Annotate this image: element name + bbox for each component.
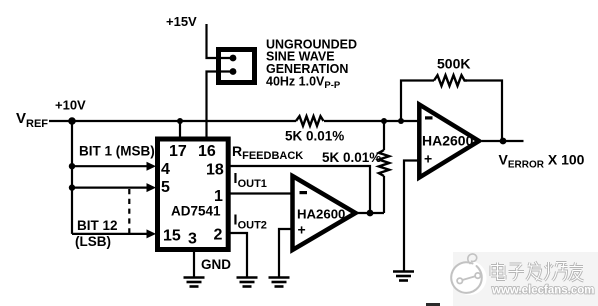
svg-text:500K: 500K — [437, 56, 470, 72]
svg-text:BIT 12: BIT 12 — [77, 218, 118, 233]
svg-text:BIT 1 (MSB): BIT 1 (MSB) — [79, 144, 155, 159]
svg-text:3: 3 — [188, 231, 197, 248]
svg-text:18: 18 — [206, 162, 224, 179]
svg-text:5: 5 — [161, 179, 170, 196]
svg-text:GND: GND — [201, 257, 231, 272]
svg-text:4: 4 — [161, 161, 170, 178]
svg-text:16: 16 — [198, 143, 216, 160]
svg-text:HA2600: HA2600 — [422, 133, 474, 149]
svg-text:5K 0.01%: 5K 0.01% — [322, 150, 381, 165]
svg-text:HA2600: HA2600 — [297, 207, 345, 222]
svg-text:www.elecfans.com: www.elecfans.com — [491, 285, 594, 297]
svg-text:17: 17 — [169, 143, 187, 160]
svg-text:AD7541: AD7541 — [171, 203, 221, 218]
svg-text:+: + — [424, 151, 432, 167]
svg-text:15: 15 — [163, 228, 181, 245]
svg-text:+15V: +15V — [166, 14, 197, 29]
svg-text:+10V: +10V — [55, 98, 86, 113]
svg-text:2: 2 — [214, 227, 223, 244]
svg-text:(LSB): (LSB) — [75, 234, 111, 249]
svg-text:+: + — [298, 222, 306, 238]
svg-text:5K 0.01%: 5K 0.01% — [285, 129, 344, 144]
